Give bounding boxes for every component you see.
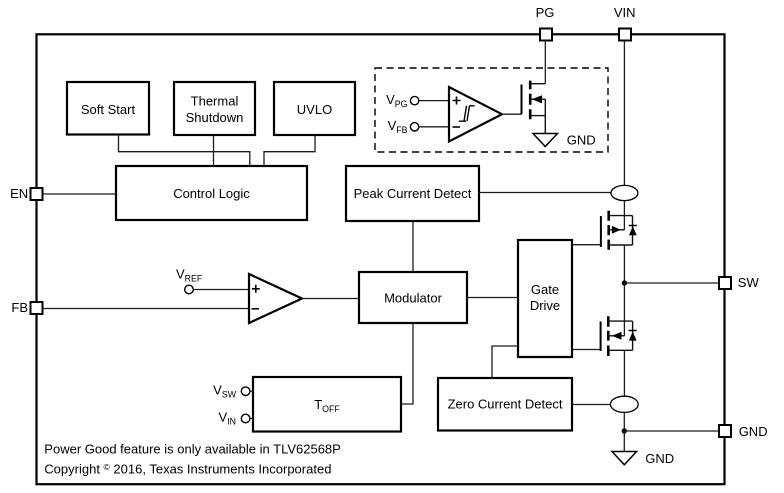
comparator U2 error [249, 274, 302, 323]
wire VIN terminal to TOFF [250, 418, 253, 420]
ground symbol main [612, 451, 674, 466]
wire high-side source to SW node [623, 245, 625, 283]
svg-text:Modulator: Modulator [384, 291, 442, 306]
block Thermal Shutdown [174, 82, 255, 135]
node VIN terminal [219, 410, 250, 427]
transistor Q1 high-side [601, 211, 633, 250]
node VPG input terminal [386, 92, 419, 109]
wire error comparator to Modulator [302, 298, 359, 300]
comparator U1 power good [449, 87, 502, 142]
svg-text:Zero Current Detect: Zero Current Detect [448, 397, 563, 412]
wire SW node to SW pin [624, 282, 719, 284]
wire Modulator to Gate Drive [467, 297, 518, 299]
wire Thermal Shutdown to Control Logic [213, 135, 215, 166]
wire VSW to TOFF [250, 390, 253, 392]
wire ground node to GND pin [624, 430, 719, 432]
block TOFF [253, 377, 401, 432]
wire Zero Current Detect to sense element [572, 404, 610, 406]
node VREF terminal [176, 267, 203, 294]
svg-text:VIN: VIN [614, 5, 636, 20]
pin GND [719, 424, 768, 439]
svg-text:Drive: Drive [530, 298, 560, 313]
svg-text:PG: PG [536, 5, 555, 20]
svg-text:GND: GND [567, 132, 596, 147]
svg-text:Soft Start: Soft Start [81, 102, 136, 117]
pin EN [10, 186, 42, 201]
wire comparator output to PG FET gate [502, 113, 522, 115]
svg-text:UVLO: UVLO [297, 102, 332, 117]
wire sense element to high-side FET [623, 201, 625, 230]
wire FB pin to error comparator [43, 308, 250, 310]
svg-text:GND: GND [645, 451, 674, 466]
block Control Logic [116, 166, 307, 220]
svg-text:Gate: Gate [531, 282, 559, 297]
wire VIN pin down to sense element [623, 41, 625, 186]
node VSW terminal [213, 382, 250, 399]
wire Soft Start to Control Logic [119, 135, 250, 167]
transistor Q3 PG open-drain [522, 81, 546, 133]
block Modulator [359, 272, 467, 323]
node VFB input terminal [388, 118, 419, 135]
svg-text:FB: FB [11, 300, 28, 315]
transistor Q2 low-side [601, 316, 633, 356]
svg-text:Shutdown: Shutdown [186, 110, 244, 125]
wire VPG to comparator [419, 100, 449, 102]
block Gate Drive [518, 240, 572, 357]
block Zero Current Detect [438, 378, 572, 431]
wire low-side source to sense element [623, 350, 625, 396]
svg-text:Control Logic: Control Logic [173, 186, 250, 201]
wire Gate Drive to high-side gate [572, 244, 601, 246]
wire SW node to low-side FET [623, 283, 625, 336]
body diode D2 [629, 321, 637, 350]
wire VFB to comparator [419, 126, 449, 128]
pin VIN [614, 5, 636, 41]
svg-text:Peak Current Detect: Peak Current Detect [354, 186, 472, 201]
wire UVLO to Control Logic [264, 135, 315, 166]
wire PG pin to PG FET drain [544, 41, 546, 84]
svg-text:SW: SW [738, 275, 760, 290]
pin PG [536, 5, 555, 41]
svg-text:Copyright © 2016, Texas Instru: Copyright © 2016, Texas Instruments Inco… [44, 462, 331, 477]
wire Gate Drive to low-side gate [572, 349, 601, 351]
pin FB [11, 300, 42, 315]
node SW junction [622, 280, 627, 285]
wire sense element to ground node [623, 412, 625, 431]
svg-text:GND: GND [739, 424, 768, 439]
wire VREF to error comparator [193, 289, 249, 291]
block UVLO [274, 82, 355, 135]
wire Gate Drive to Zero Current Detect [492, 346, 518, 378]
node ground junction [622, 428, 627, 433]
current sense element peak [611, 185, 638, 200]
svg-text:EN: EN [10, 186, 28, 201]
wire EN to Control Logic [43, 193, 117, 195]
body diode D1 [629, 216, 637, 245]
svg-text:Power Good feature is only ava: Power Good feature is only available in … [44, 442, 341, 457]
wire Modulator to TOFF [401, 323, 413, 404]
svg-text:Thermal: Thermal [191, 93, 239, 108]
dashed power-good region [375, 68, 608, 152]
wire Peak Current Detect to Modulator [412, 221, 414, 272]
block Soft Start [67, 82, 149, 135]
wire Peak Current Detect to sense element [479, 192, 611, 194]
block Peak Current Detect [346, 166, 479, 221]
pin SW [719, 275, 759, 290]
current sense element zero [610, 396, 638, 412]
wire ground node to ground symbol [623, 431, 625, 452]
ground symbol PG [533, 132, 596, 147]
